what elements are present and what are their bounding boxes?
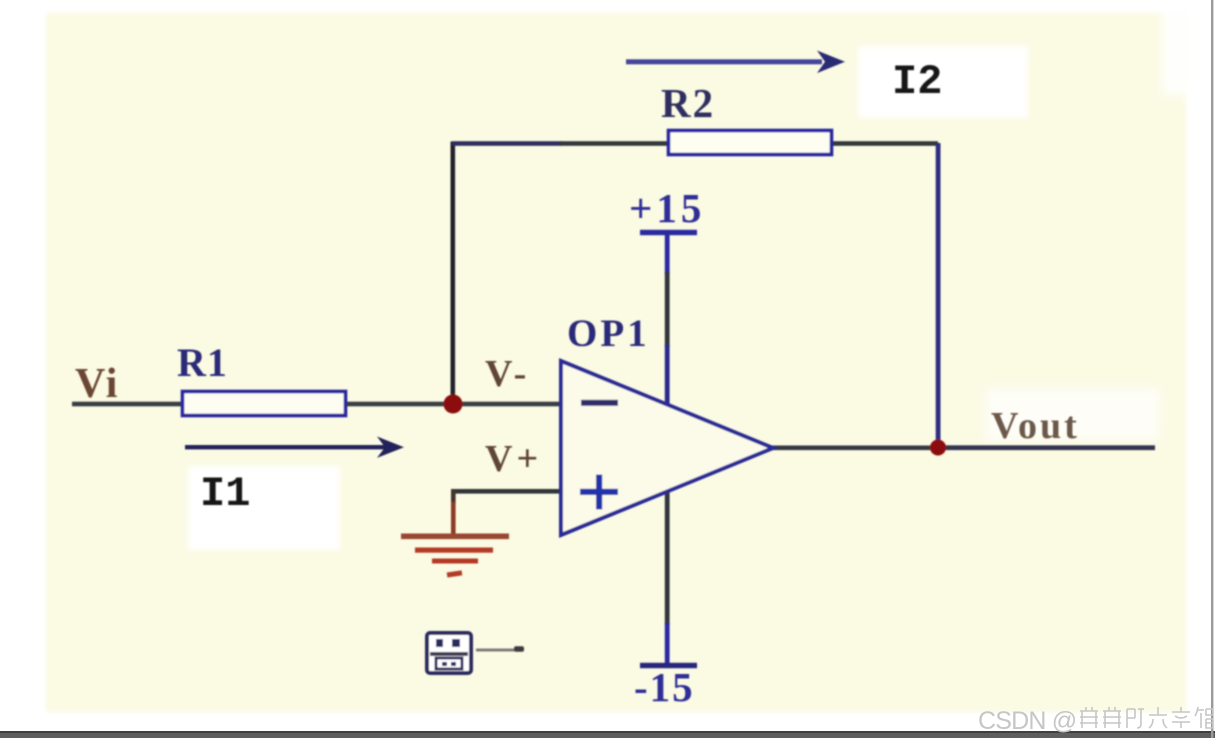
svg-text:CSDN @: CSDN @ [978,707,1076,735]
svg-text:-15: -15 [634,664,695,710]
svg-text:R2: R2 [661,80,715,126]
svg-text:R1: R1 [177,340,228,385]
svg-text:Vi: Vi [75,361,119,407]
svg-text:+15: +15 [629,185,705,231]
svg-text:I2: I2 [892,58,942,106]
svg-text:V+: V+ [485,438,542,480]
svg-text:OP1: OP1 [567,312,650,355]
svg-text:I1: I1 [200,470,250,518]
svg-text:Vout: Vout [991,405,1080,447]
svg-text:V-: V- [485,353,530,395]
